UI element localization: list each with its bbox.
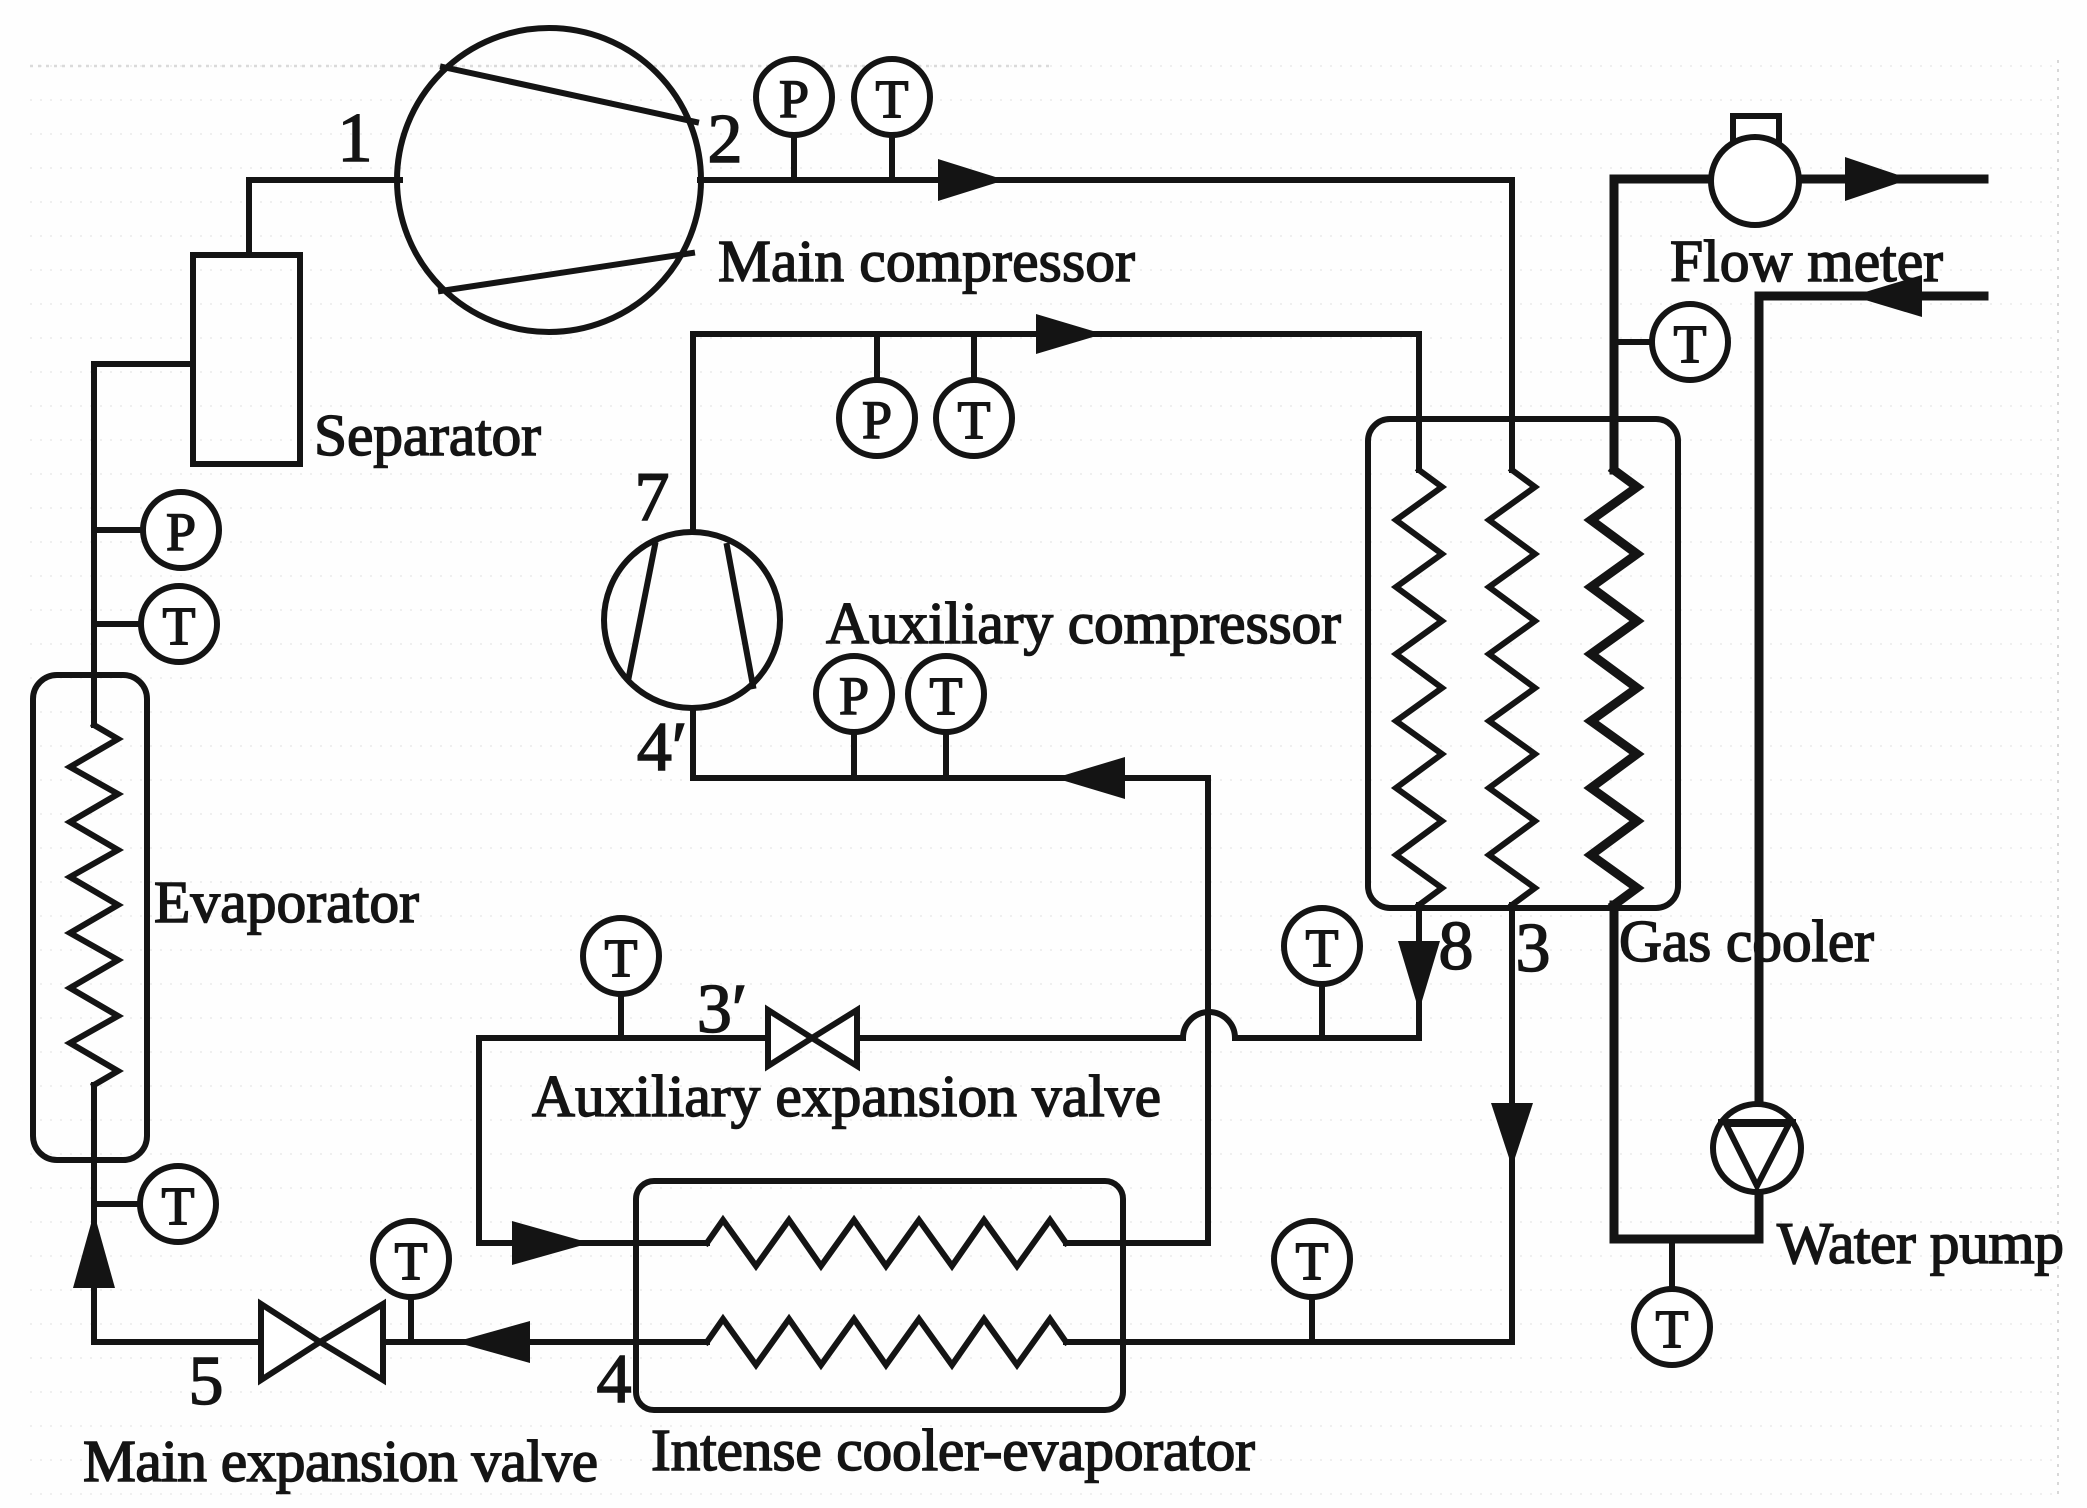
wire bottom coil to vertical 3 — [1066, 1339, 1512, 1345]
gauge P separator line — [94, 527, 143, 533]
water line below gas cooler to pump bottom — [1614, 905, 1759, 1239]
wire evaporator bottom to expansion valve line (node 5) — [94, 1085, 261, 1342]
svg-text:P: P — [839, 666, 869, 726]
svg-text:T: T — [930, 666, 963, 726]
gauge P aux inlet — [851, 732, 857, 778]
flow meter outlet line with arrow — [1797, 175, 1984, 184]
gauge T water out — [1614, 339, 1652, 345]
svg-text:T: T — [162, 1176, 195, 1236]
evaporator body — [33, 675, 147, 1160]
gauge T water pump line — [1669, 1239, 1675, 1289]
gauge P main outlet — [791, 136, 797, 180]
svg-text:T: T — [163, 596, 196, 656]
svg-text:P: P — [862, 390, 892, 450]
svg-text:8: 8 — [1439, 908, 1474, 985]
gauge T bottom line — [1309, 1297, 1315, 1342]
svg-text:1: 1 — [338, 100, 373, 177]
svg-text:2: 2 — [708, 101, 743, 178]
svg-text:Auxiliary compressor: Auxiliary compressor — [826, 590, 1341, 656]
wire into intense cooler top coil — [575, 1240, 707, 1246]
wire top coil up to aux compressor inlet line — [693, 708, 1208, 1243]
svg-text:T: T — [605, 928, 638, 988]
svg-text:T: T — [958, 390, 991, 450]
gauge T aux outlet — [971, 334, 977, 380]
auxiliary expansion valve — [768, 1010, 812, 1066]
water line: gas cooler right coil up to flow meter line — [1614, 179, 1713, 470]
gas cooler middle coil (refrigerant, node 3) — [1489, 470, 1535, 905]
gas cooler left coil (node 8) — [1396, 470, 1442, 905]
svg-text:Auxiliary expansion valve: Auxiliary expansion valve — [532, 1063, 1161, 1129]
svg-text:Intense cooler-evaporator: Intense cooler-evaporator — [651, 1417, 1255, 1483]
intense cooler bottom coil — [707, 1319, 1066, 1365]
gauge T main outlet — [889, 136, 895, 180]
arrow up into evaporator — [73, 1213, 115, 1288]
aux expansion valve line (node 3prime) — [1235, 1035, 1419, 1041]
svg-text:Main compressor: Main compressor — [718, 228, 1135, 294]
aux compressor outlet line (node 7 to gas cooler coil 8) — [693, 334, 1419, 532]
wire separator to main compressor (node 1) — [249, 180, 400, 255]
svg-text:4: 4 — [597, 1341, 632, 1418]
svg-text:3: 3 — [1516, 910, 1551, 987]
auxiliary compressor — [604, 532, 780, 708]
svg-text:T: T — [395, 1231, 428, 1291]
arrow down on line 3 — [1491, 1103, 1533, 1167]
hop over vertical line — [1183, 1012, 1235, 1038]
svg-text:Gas cooler: Gas cooler — [1619, 908, 1874, 974]
water pump — [1713, 1104, 1801, 1192]
arrow down on node 8 outlet — [1398, 941, 1440, 1011]
water return line from right — [1759, 296, 1984, 1104]
svg-text:Evaporator: Evaporator — [154, 869, 419, 935]
svg-text:T: T — [1296, 1231, 1329, 1291]
svg-text:5: 5 — [189, 1343, 224, 1420]
svg-text:4′: 4′ — [637, 709, 687, 786]
arrow left on bottom line — [455, 1321, 530, 1363]
svg-text:3′: 3′ — [697, 971, 747, 1048]
gauge T main valve — [408, 1297, 414, 1342]
svg-text:T: T — [1656, 1299, 1689, 1359]
main compressor — [397, 28, 701, 332]
svg-text:Main expansion valve: Main expansion valve — [83, 1428, 598, 1494]
svg-text:Separator: Separator — [314, 402, 541, 468]
svg-text:P: P — [779, 69, 809, 129]
gauge T evaporator outlet — [94, 1201, 140, 1207]
separator — [193, 255, 300, 464]
svg-text:T: T — [1674, 314, 1707, 374]
svg-text:P: P — [166, 502, 196, 562]
gauge T separator line — [94, 621, 141, 627]
gauge T aux valve left — [618, 994, 624, 1038]
arrow right on main outlet line — [938, 159, 1005, 201]
wire separator left to evaporator vertical — [94, 364, 193, 725]
gauge P aux outlet — [874, 334, 880, 380]
gas cooler body — [1368, 419, 1678, 908]
svg-text:7: 7 — [635, 459, 670, 536]
gas cooler right water coil — [1591, 470, 1637, 905]
gauge T aux valve right — [1319, 984, 1325, 1038]
svg-text:T: T — [1306, 918, 1339, 978]
arrow right on aux outlet line — [1036, 314, 1103, 354]
bottom line: main expansion valve to node 3 (node 4) — [383, 1339, 707, 1345]
wire coil 8 down to aux valve line — [1416, 905, 1422, 1038]
wire main compressor outlet to gas cooler coil top (node 2) — [700, 180, 1512, 470]
svg-text:Water pump: Water pump — [1777, 1210, 2064, 1276]
main expansion valve — [261, 1304, 320, 1380]
gauge T aux inlet — [943, 732, 949, 778]
intense cooler-evaporator body — [636, 1181, 1123, 1410]
intense cooler top coil (node 4prime feed) — [707, 1220, 1066, 1266]
svg-text:Flow meter: Flow meter — [1670, 228, 1943, 294]
wire gas cooler coil 3 down to bottom line — [1509, 905, 1515, 1342]
arrow left on aux inlet line — [1055, 757, 1125, 799]
arrow right into intense cooler top coil — [512, 1221, 590, 1265]
svg-text:T: T — [876, 69, 909, 129]
flow meter — [1733, 116, 1779, 155]
evaporator coil — [70, 725, 118, 1085]
